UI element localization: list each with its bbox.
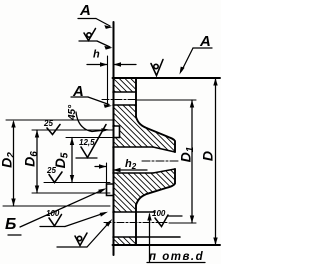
wire D6 extension top: [32, 129, 113, 131]
leader roughness circle-check top-left: [79, 40, 97, 42]
wire D2 extension bottom: [3, 205, 110, 207]
dimension h arrows: [87, 64, 107, 66]
node axis centerline: [142, 160, 180, 162]
dimension h2 arrows: [95, 166, 106, 168]
svg-text:100: 100: [46, 209, 60, 218]
roughness check 12,5: [81, 125, 106, 158]
svg-text:h: h: [93, 49, 100, 61]
svg-text:D: D: [200, 151, 216, 161]
wire D5 extension bottom: [44, 182, 110, 184]
leader A top-right: [193, 47, 212, 49]
leader n holes d: [149, 214, 151, 262]
dimension D5 line: [71, 138, 73, 183]
wire lower bolt hole bottom edge: [113, 236, 180, 238]
roughness check 25 lower: [49, 172, 62, 183]
leader A mid-left: [71, 96, 88, 98]
hatch upper disc and hub mass: [113, 105, 175, 152]
wire D5 extension top: [66, 137, 118, 139]
roughness symbol bottom (check with circle): [75, 233, 87, 246]
node upper bolt hole centerline: [102, 99, 137, 101]
wire lower bore cone: [153, 169, 175, 173]
wire D2 extension top: [6, 119, 113, 121]
svg-text:100: 100: [152, 209, 166, 218]
roughness check 100 at bolt hole: [155, 215, 168, 227]
dimension D1 line: [191, 100, 193, 223]
svg-text:Б: Б: [5, 216, 16, 233]
dimension D line: [215, 78, 217, 245]
label n otv d underline: [147, 262, 205, 264]
wire upper bolt hole bottom edge: [113, 104, 136, 106]
tongue (ship) lower white block: [107, 184, 113, 196]
wire D6 extension bottom: [32, 192, 110, 194]
wire upper hub outer profile: [136, 117, 175, 152]
dimension D2 line: [13, 122, 15, 206]
hatch upper disc above bolt hole: [113, 79, 136, 92]
wire top face edge: [113, 77, 221, 79]
leader A top-left: [78, 18, 96, 20]
dimension D6 line: [36, 130, 38, 193]
label B underline: [8, 234, 21, 236]
wire bottom face edge: [113, 244, 221, 246]
wire extension line for h: [107, 56, 109, 105]
hatch lower hub and disc mass: [113, 169, 175, 212]
leader B bottom-left: [20, 190, 104, 227]
wire disc outer edge upper: [135, 79, 137, 118]
svg-text:45°: 45°: [67, 104, 78, 121]
wire extension lines for h2: [106, 163, 108, 184]
wire disc outer edge lower: [135, 205, 137, 245]
wire bore bottom edge: [113, 172, 153, 174]
svg-text:A: A: [199, 33, 211, 50]
svg-text:п отв.d: п отв.d: [149, 251, 204, 263]
svg-text:12,5: 12,5: [79, 138, 95, 147]
svg-text:A: A: [79, 2, 91, 19]
wire face vertical line: [113, 22, 115, 255]
node lower bolt hole centerline: [104, 222, 169, 224]
leader roughness 100 bottom-left: [40, 226, 65, 228]
svg-text:25: 25: [43, 119, 53, 128]
roughness check 25 upper: [47, 125, 60, 135]
flange sectional drawing: [0, 0, 221, 264]
leader 45 deg chamfer arc: [76, 112, 92, 132]
wire lower hub outer profile: [136, 169, 175, 205]
wire upper bolt hole top edge: [113, 91, 136, 93]
roughness check 100 bottom-left: [49, 215, 62, 227]
svg-text:A: A: [72, 83, 84, 100]
roughness symbol on top face (check with circle): [151, 60, 163, 76]
hatch lower disc strip below bolt hole: [113, 237, 136, 245]
leader roughness circle-check bottom: [57, 246, 87, 248]
wire lower bolt hole top edge: [113, 211, 155, 213]
wire upper bore cone: [153, 147, 175, 152]
wire raised step face upper: [113, 126, 120, 138]
roughness symbol top-left (check with circle): [84, 29, 96, 41]
wire bore top edge: [113, 146, 153, 148]
